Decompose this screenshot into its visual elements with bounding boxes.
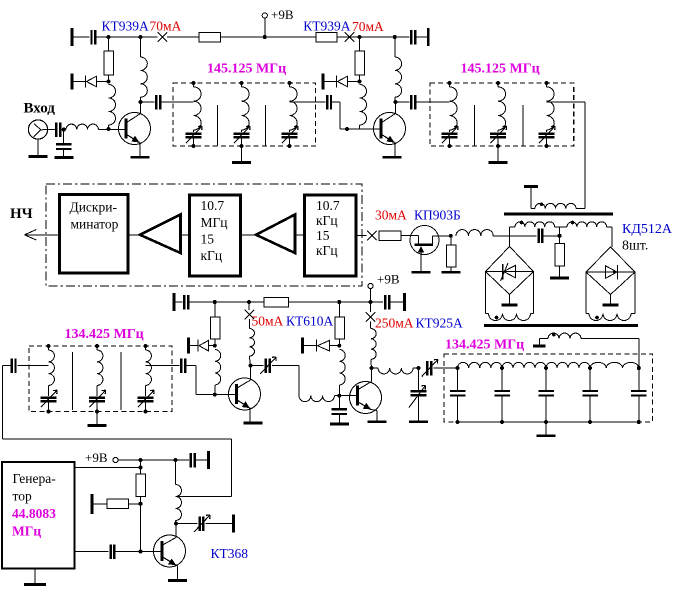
decoupling plate terminal xyxy=(71,28,74,46)
node osc supply divider xyxy=(139,458,143,462)
ground emitter VT5 xyxy=(368,420,387,423)
drain VT3 xyxy=(432,236,451,244)
variable capacitor tank F3-2 xyxy=(89,390,106,407)
wire filter1 output tap xyxy=(290,101,326,103)
inductor tank coil F2-3 xyxy=(547,87,555,130)
label Дискри- xyxy=(70,200,118,215)
wire shunt trimmer top xyxy=(418,368,420,391)
wire xyxy=(167,36,199,38)
variable capacitor tank F2-3 xyxy=(539,126,556,143)
wire tank F1-1 xyxy=(193,83,195,87)
svg-text:Вход: Вход xyxy=(24,101,56,117)
capacitor C2 rail bypass xyxy=(411,30,415,45)
gate VT3 xyxy=(411,236,419,245)
svg-text:+9В: +9В xyxy=(85,450,108,465)
wire filter1 ground stem xyxy=(241,146,243,161)
wire block output top xyxy=(75,467,141,469)
emitter arrow VT2 xyxy=(382,135,395,143)
node osc supply coil xyxy=(174,458,178,462)
node TX ladder bottom 3 xyxy=(544,420,548,424)
wire trimmer to coil xyxy=(272,366,299,396)
capacitor C5 coupling to filter1 xyxy=(156,95,160,110)
capacitor TX shunt C1 xyxy=(450,391,466,396)
svg-text:МГц: МГц xyxy=(201,215,228,230)
node tank top F2-1 xyxy=(448,81,452,85)
wire tank to bottom F3-1 xyxy=(48,401,50,411)
phase dot T2 right xyxy=(595,316,599,320)
capacitor TX shunt C3 xyxy=(538,391,554,396)
svg-text:30мА: 30мА xyxy=(375,208,407,223)
ground filter2 xyxy=(489,161,508,164)
wire emitter to ground xyxy=(139,143,141,156)
wire tank coil to cap F3-2 xyxy=(96,385,98,396)
label 10.7 b3 xyxy=(316,198,340,213)
terminal +9V mid xyxy=(368,283,373,288)
coupling stub filter2 b xyxy=(522,105,524,146)
wire xyxy=(356,235,367,237)
wire xyxy=(221,36,317,38)
terminal +9V osc xyxy=(113,457,118,462)
label КП903Б xyxy=(414,208,461,223)
wire xyxy=(95,36,140,38)
transistor VT1 КТ939А xyxy=(119,113,151,145)
wire divider bottom xyxy=(140,497,142,552)
wire bridge left to ground xyxy=(509,295,511,305)
inductor tank coil F2-1 xyxy=(450,87,458,130)
node mid rail +9V xyxy=(369,300,373,304)
svg-text:134.425 МГц: 134.425 МГц xyxy=(445,338,524,353)
svg-text:кГц: кГц xyxy=(201,248,223,263)
current break point IF xyxy=(367,231,377,241)
wire xyxy=(93,503,107,505)
bandpass filter1 box xyxy=(173,83,316,146)
svg-text:250мА: 250мА xyxy=(375,316,414,331)
svg-text:минатор: минатор xyxy=(71,217,119,232)
trimmer capacitor C19 osc xyxy=(194,515,210,532)
inductor tank coil F3-3 xyxy=(146,350,152,385)
wire choke to base xyxy=(108,125,110,129)
resistor R4 bias stage2 xyxy=(355,51,365,75)
node mid rail collector VT4 xyxy=(247,300,251,304)
wire base stage2 xyxy=(359,128,381,130)
wire tank coil to cap F2-2 xyxy=(497,130,499,132)
label 134.425 MHz RX filter xyxy=(65,327,144,342)
node TX ladder top 4 xyxy=(588,366,592,370)
transistor VT2 КТ939А xyxy=(374,113,406,145)
wire xyxy=(176,459,190,461)
node tank bottom F2-3 xyxy=(545,144,549,148)
wire to base VT4 xyxy=(185,366,236,395)
wire T2 output stem xyxy=(539,339,541,345)
svg-text:Генера-: Генера- xyxy=(13,471,57,486)
base bar VT2 xyxy=(380,119,383,139)
svg-text:МГц: МГц xyxy=(12,524,41,539)
variable capacitor tank F2-2 xyxy=(490,126,507,143)
variable capacitor tank F2-1 xyxy=(442,126,459,143)
label VT1 КТ939А xyxy=(102,18,150,33)
wire TX shunt cap bottom 4 xyxy=(589,395,591,422)
wire bias resistor bottom xyxy=(108,75,110,82)
variable capacitor tank F1-1 xyxy=(186,126,203,143)
inductor tank coil F1-1 xyxy=(194,87,202,130)
svg-text:+9В: +9В xyxy=(377,272,400,287)
node drain VT3 xyxy=(449,234,453,238)
resistor R8 mid rail xyxy=(264,297,289,307)
capacitor C4 input bypass xyxy=(56,144,71,149)
diode VD2 bias stage2 xyxy=(323,74,359,90)
coupling stub filter3 b xyxy=(120,352,122,410)
variable capacitor tank F1-3 xyxy=(282,126,299,143)
channel bar VT3 xyxy=(415,244,434,247)
svg-text:КТ939А: КТ939А xyxy=(102,18,150,33)
wire bias res top VT4 xyxy=(214,302,216,317)
node tank bottom F3-1 xyxy=(47,410,51,414)
node TX ladder bottom 2 xyxy=(500,420,504,424)
inductor tank coil F3-1 xyxy=(49,350,55,385)
inductor tank coil F1-3 xyxy=(290,87,298,130)
inductor L13 osc choke xyxy=(176,485,182,521)
capacitor C6 interstage coupling xyxy=(327,95,331,110)
node base stage2 xyxy=(345,127,349,131)
ground drain resistor xyxy=(442,271,461,274)
wire tank3 tap to cap xyxy=(146,365,180,367)
label МГц osc xyxy=(12,524,41,539)
wire xyxy=(181,234,190,236)
diode VD4 bias VT5 xyxy=(303,338,340,354)
node tank top F2-2 xyxy=(496,81,500,85)
label кГц b3a xyxy=(316,213,338,228)
IF unit dash-dot box xyxy=(46,184,362,286)
ground emitter VT6 xyxy=(168,579,187,582)
inductor tank coil F2-2 xyxy=(498,87,506,130)
node bias VT4 xyxy=(213,344,217,348)
wire choke to collector xyxy=(140,97,142,102)
node TX ladder bottom 4 xyxy=(588,420,592,424)
wire osc coil to collector xyxy=(175,521,178,524)
node TX match xyxy=(417,366,421,370)
terminal +9V top xyxy=(262,13,267,18)
variable capacitor tank F3-3 xyxy=(138,390,155,407)
wire bias res top VT5 xyxy=(338,302,340,317)
node tank bottom F3-3 xyxy=(144,410,148,414)
svg-text:КТ939А: КТ939А xyxy=(303,18,351,33)
plate terminal osc out xyxy=(232,515,235,533)
coupling stub filter1 b xyxy=(265,105,267,146)
node collector stage1 xyxy=(139,100,143,104)
emitter arrow VT5 xyxy=(358,402,371,410)
transistor VT3 КП903Б JFET xyxy=(410,226,439,255)
svg-text:70мА: 70мА xyxy=(352,19,384,34)
wire tank F1-3 xyxy=(289,83,291,87)
wire tank cap to bottom F2-2 xyxy=(497,137,499,146)
label +9V top xyxy=(271,7,294,22)
amplifier A2 xyxy=(256,215,295,254)
svg-text:КТ610А: КТ610А xyxy=(286,314,334,329)
ground emitter VT1 xyxy=(131,156,150,159)
wire emitter VT6 to ground xyxy=(176,565,178,579)
wire to collector choke VT4 xyxy=(248,319,250,329)
capacitor C10 mid rail bypass right xyxy=(385,295,389,310)
wire bias resistor top stage2 xyxy=(359,37,361,51)
label +9V mid xyxy=(377,272,400,287)
node mid rail bias VT5 xyxy=(337,300,341,304)
node TX ladder bottom 5 xyxy=(637,420,641,424)
wire bridge right winding a xyxy=(586,272,589,314)
node tank top F1-3 xyxy=(288,81,292,85)
ground oscillator block xyxy=(24,583,46,586)
inductor L9 interstage xyxy=(299,396,334,402)
wire choke to collector VT4 xyxy=(249,356,250,365)
inductor L5 collector choke stage2 xyxy=(395,57,402,97)
transistor VT6 КТ368 xyxy=(154,535,186,567)
wire tank coil to cap F1-1 xyxy=(193,130,195,132)
node mixer center tap xyxy=(558,234,562,238)
wire emitter VT4 to ground xyxy=(249,408,251,421)
diode VD1 bias stage1 xyxy=(72,74,108,90)
label 15 b3 xyxy=(316,228,330,243)
svg-text:тор: тор xyxy=(13,489,32,504)
wire rail to collector choke xyxy=(140,37,142,57)
wire xyxy=(128,234,140,236)
wire filter2 output tap xyxy=(547,101,586,103)
wire tank1 tap xyxy=(17,365,48,367)
inductor TX ladder L2 xyxy=(502,362,546,368)
node TX ladder top 3 xyxy=(544,366,548,370)
wire T1 sec to left bridge xyxy=(510,227,516,247)
label +9V osc xyxy=(85,450,108,465)
wire xyxy=(206,523,233,525)
inductor L1 bias choke stage1 xyxy=(109,85,116,126)
wire xyxy=(395,36,410,38)
wire tank cap to bottom F1-3 xyxy=(289,137,291,146)
wire xyxy=(540,338,549,340)
label 10.7 b2 xyxy=(201,198,225,213)
block Генератор 44.8083 МГц xyxy=(2,462,75,569)
node TX ladder top 1 xyxy=(456,366,460,370)
inductor L2 input xyxy=(66,124,98,129)
capacitor C8 mixer injection xyxy=(539,229,543,244)
wire filter2 ground stem xyxy=(497,146,499,161)
capacitor C3 input coupling xyxy=(56,122,60,137)
wire xyxy=(188,301,264,303)
bridge right horizontal wire xyxy=(586,271,635,273)
resistor R11 divider xyxy=(136,474,146,497)
label 50mA xyxy=(252,314,284,329)
label кГц b2 xyxy=(201,248,223,263)
current break point stage2 xyxy=(345,32,355,42)
node supply stage1 collector xyxy=(139,35,143,39)
block IF filter 2 xyxy=(305,195,357,276)
wire tank coil to cap F1-3 xyxy=(289,130,291,132)
label КД512А xyxy=(622,222,673,237)
wire choke to base VT5 xyxy=(338,385,340,396)
transformer T2 winding left bridge xyxy=(489,314,531,321)
node tank top F3-3 xyxy=(144,344,148,348)
wire tank coil to cap F2-1 xyxy=(449,130,451,132)
wire to mixer injection cap xyxy=(493,235,536,237)
node supply stage2 collector xyxy=(393,35,397,39)
ground filter3 xyxy=(88,424,107,427)
node tank bottom F1-2 xyxy=(240,144,244,148)
collector VT1 xyxy=(127,102,141,123)
svg-text:50мА: 50мА xyxy=(252,314,284,329)
coupling stub filter3 a xyxy=(72,352,74,410)
wire bias resistor bottom stage2 xyxy=(359,75,361,82)
transformer T1 secondary left xyxy=(515,222,555,227)
wire xyxy=(195,459,207,461)
inductor L4 bias choke stage2 xyxy=(360,85,367,126)
collector VT6 xyxy=(163,524,176,546)
wire +9V stub mid xyxy=(370,289,372,302)
svg-text:КП903Б: КП903Б xyxy=(414,208,461,223)
capacitor TX shunt C5 xyxy=(631,391,647,396)
node tank bottom F2-1 xyxy=(448,144,452,148)
capacitor C18 osc coupling xyxy=(111,544,115,559)
core T1 xyxy=(504,213,613,216)
wire tank F3-2 xyxy=(96,346,98,350)
wire tank F2-3 xyxy=(546,83,548,87)
label 70mA stage2 xyxy=(352,19,384,34)
label Генера- xyxy=(13,471,57,486)
node tank bottom F1-3 xyxy=(288,144,292,148)
emitter arrow VT4 xyxy=(237,400,250,408)
wire xyxy=(176,523,197,525)
variable capacitor tank F3-1 xyxy=(41,390,58,407)
node tank top F1-2 xyxy=(240,81,244,85)
plate terminal rail right xyxy=(427,28,430,46)
label КТ368 xyxy=(211,546,249,561)
wire center tap down xyxy=(559,227,561,236)
wire xyxy=(401,235,411,237)
plate terminal osc rail xyxy=(207,451,210,469)
wire filter2 to mixer transformer xyxy=(584,102,586,209)
label минатор xyxy=(71,217,119,232)
node tank bottom F2-2 xyxy=(496,144,500,148)
diode VD right bridge xyxy=(606,265,618,280)
wire tank coil to cap F2-3 xyxy=(546,130,548,132)
wire bias resistor top xyxy=(108,37,110,51)
TX filter box xyxy=(444,354,653,422)
ground emitter VT2 xyxy=(383,156,402,159)
inductor L10 bias choke VT5 xyxy=(339,350,345,385)
label МГц b2 xyxy=(201,215,228,230)
svg-text:44.8083: 44.8083 xyxy=(12,506,56,521)
ground base bypass xyxy=(330,423,349,426)
ground input bypass xyxy=(55,156,74,159)
svg-text:15: 15 xyxy=(201,232,215,247)
label тор xyxy=(13,489,32,504)
wire rail to osc coil xyxy=(175,460,177,485)
label КТ925А xyxy=(416,316,464,331)
capacitor C11 TX coupling xyxy=(181,358,185,373)
wire TX shunt cap bottom 5 xyxy=(638,395,640,422)
node collector VT4 xyxy=(249,364,253,368)
inductor L8 collector choke VT4 xyxy=(249,329,254,357)
current break point stage1 xyxy=(158,32,168,42)
capacitor TX shunt C4 xyxy=(582,391,598,396)
label НЧ output xyxy=(10,206,33,222)
wire drain resistor bottom xyxy=(450,267,452,271)
wire xyxy=(141,36,158,38)
plate terminal mid rail left xyxy=(173,293,176,311)
svg-text:КТ925А: КТ925А xyxy=(416,316,464,331)
wire tank coil to cap F1-2 xyxy=(241,130,243,132)
trimmer capacitor C15 series xyxy=(422,360,438,377)
wire into filter2 tap xyxy=(415,101,449,103)
wire xyxy=(542,235,559,237)
wire to collector choke VT5 xyxy=(370,321,372,328)
node bias VT5 xyxy=(337,344,341,348)
wire oscillator feed xyxy=(3,366,232,497)
wire xyxy=(73,36,89,38)
wire TX shunt cap bottom 1 xyxy=(457,395,459,422)
label 145.125 MHz filter2 xyxy=(461,62,540,77)
wire drain resistor top xyxy=(450,236,452,245)
wire T2 output to filter xyxy=(581,338,639,340)
wire TX filter ground stem xyxy=(545,422,547,435)
wire divider top xyxy=(140,460,142,474)
wire to input bypass cap xyxy=(63,130,65,145)
node collector VT5 xyxy=(370,366,374,370)
wire T1 sec to right bridge xyxy=(607,227,612,247)
wire tank F2-2 xyxy=(497,83,499,87)
wire +9V stub xyxy=(264,18,266,37)
variable capacitor tank F1-2 xyxy=(234,126,251,143)
node tank bottom F1-1 xyxy=(192,144,196,148)
wire bridge left winding a xyxy=(486,272,489,314)
connector X1 input socket xyxy=(28,120,47,139)
TX filter bottom rail xyxy=(458,421,639,423)
resistor R10 bias VT5 xyxy=(335,317,345,339)
wire tank cap to bottom F1-1 xyxy=(193,137,195,146)
base bar VT1 xyxy=(125,119,128,139)
wire shunt trimmer to ground xyxy=(418,396,420,420)
wire xyxy=(129,503,141,505)
node tank top F2-3 xyxy=(545,81,549,85)
wire xyxy=(531,208,535,210)
transistor VT5 КТ925А xyxy=(350,382,382,414)
wire to base КТ368 xyxy=(114,551,162,553)
label 44.8083 xyxy=(12,506,56,521)
wire xyxy=(48,129,56,131)
wire xyxy=(360,36,395,38)
wire tank cap to bottom F2-1 xyxy=(449,137,451,146)
svg-text:НЧ: НЧ xyxy=(10,206,33,222)
collector VT4 xyxy=(237,366,250,389)
wire tank F1-2 xyxy=(241,83,243,87)
svg-text:кГц: кГц xyxy=(316,243,338,258)
wire oscillator block ground xyxy=(34,569,36,584)
capacitor C7 coupling to filter2 xyxy=(411,95,415,110)
node tank top F3-2 xyxy=(95,344,99,348)
resistor R5 gate xyxy=(379,231,401,241)
wire xyxy=(396,101,410,103)
wire TX shunt cap top 4 xyxy=(589,368,591,391)
node collector stage2 xyxy=(394,100,398,104)
phase dot T1 secondary right xyxy=(571,221,575,225)
node TX ladder top 5 xyxy=(637,366,641,370)
inductor L3 collector choke stage1 xyxy=(141,57,148,97)
svg-text:8шт.: 8шт. xyxy=(622,239,648,254)
phase dot T1 primary xyxy=(540,203,544,207)
inductor L12 output xyxy=(378,368,413,374)
svg-text:145.125 МГц: 145.125 МГц xyxy=(207,62,286,77)
wire xyxy=(141,101,155,103)
label 70mA stage1 xyxy=(150,18,182,33)
transistor VT4 КТ610А xyxy=(229,378,261,410)
node +9V supply tap xyxy=(263,35,267,39)
resistor R1 supply xyxy=(199,33,221,42)
